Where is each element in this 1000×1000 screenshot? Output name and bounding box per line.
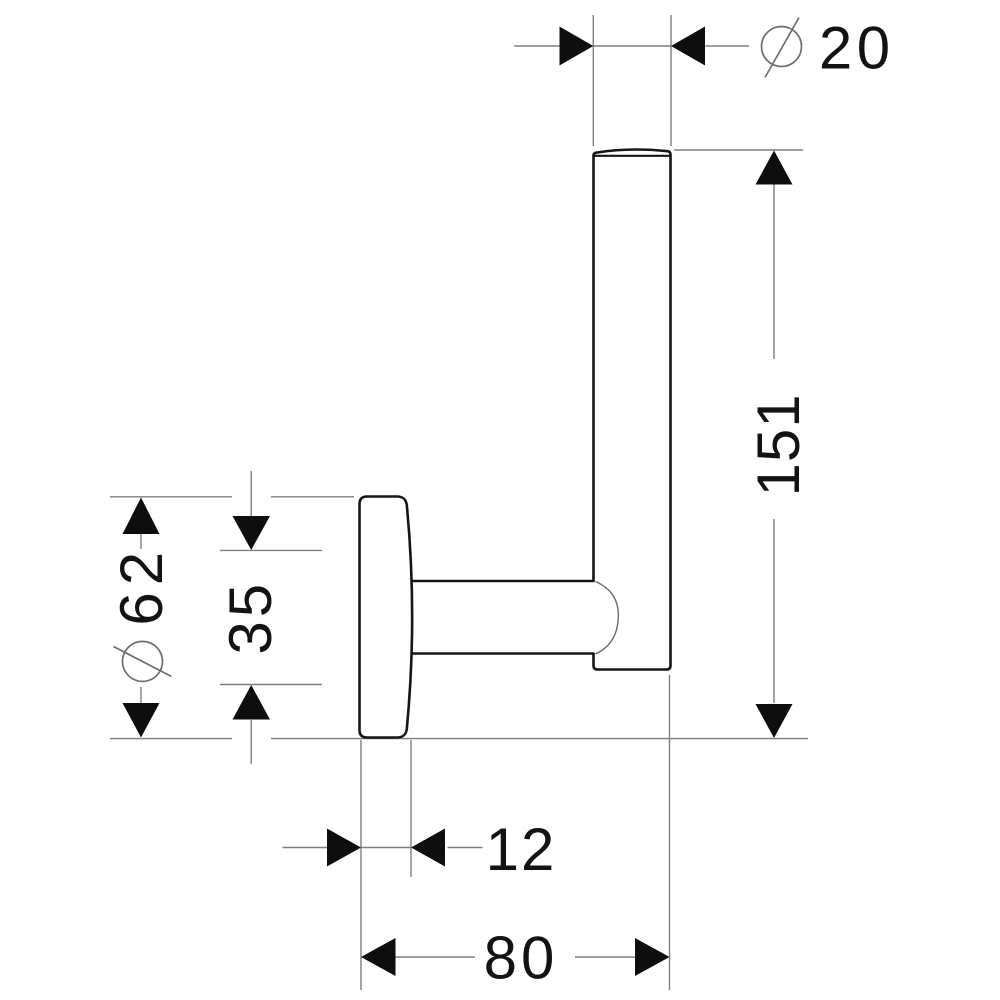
svg-text:35: 35: [217, 580, 284, 655]
svg-text:12: 12: [486, 816, 557, 883]
svg-text:20: 20: [819, 15, 895, 82]
svg-text:80: 80: [484, 925, 559, 992]
svg-text:151: 151: [745, 393, 812, 496]
svg-text:62: 62: [108, 545, 175, 626]
